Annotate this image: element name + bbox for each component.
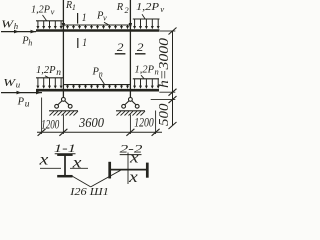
svg-text:u: u: [25, 99, 30, 109]
svg-text:u: u: [16, 80, 21, 90]
svg-text:1200: 1200: [41, 116, 59, 131]
svg-text:1,2P: 1,2P: [136, 2, 160, 13]
svg-text:1: 1: [72, 3, 76, 12]
svg-text:h: h: [14, 21, 19, 31]
svg-text:1: 1: [82, 35, 87, 49]
svg-text:500: 500: [156, 103, 171, 126]
svg-text:v: v: [160, 4, 164, 14]
svg-text:1,2P: 1,2P: [36, 65, 56, 76]
svg-text:W: W: [1, 19, 14, 31]
svg-text:h=3000: h=3000: [156, 38, 171, 88]
svg-text:1-1: 1-1: [54, 141, 76, 155]
svg-text:3600: 3600: [78, 115, 104, 130]
svg-text:v: v: [103, 14, 107, 23]
svg-text:P: P: [17, 97, 25, 108]
svg-text:n: n: [99, 70, 103, 79]
svg-text:2: 2: [137, 40, 144, 54]
svg-text:2: 2: [125, 6, 129, 15]
svg-text:x: x: [38, 152, 48, 169]
svg-text:1: 1: [82, 10, 87, 24]
svg-text:1,2P: 1,2P: [135, 64, 155, 75]
svg-text:x: x: [128, 169, 138, 186]
svg-text:W: W: [3, 77, 16, 89]
svg-text:x: x: [129, 150, 139, 167]
svg-text:v: v: [51, 6, 55, 16]
svg-text:2: 2: [117, 40, 124, 54]
svg-text:n: n: [155, 66, 159, 76]
svg-text:1200: 1200: [134, 114, 154, 129]
svg-text:I26 Ш1: I26 Ш1: [69, 186, 109, 197]
svg-text:h: h: [28, 38, 32, 47]
svg-text:R: R: [116, 2, 124, 13]
svg-text:x: x: [71, 154, 81, 171]
svg-text:n: n: [56, 68, 61, 78]
svg-text:1,2P: 1,2P: [31, 4, 51, 15]
